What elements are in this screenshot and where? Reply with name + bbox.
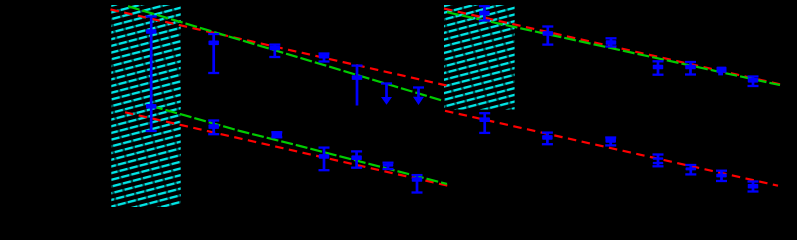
data point U1: [479, 5, 490, 22]
data point B7: [412, 174, 423, 194]
data point R1: [479, 112, 490, 134]
green dashed fit, upper-right segment: [447, 12, 780, 85]
hatched band 1 (left epoch window): [111, 5, 180, 207]
data point B5: [351, 150, 362, 169]
green dashed fit, lower-left segment: [151, 106, 447, 184]
data point R7: [748, 180, 759, 192]
data point R5: [685, 164, 696, 176]
data point B4: [319, 146, 330, 171]
upper-limit arrow T6: [381, 82, 392, 104]
data point B6: [383, 162, 394, 171]
data point R6: [716, 170, 727, 183]
data point B3: [271, 131, 282, 138]
data point R3: [605, 136, 616, 146]
data point U5: [685, 61, 696, 76]
red dashed fit, upper-right segment: [444, 9, 780, 85]
upper-limit arrow T7: [413, 86, 424, 105]
red dashed fit, upper-left segment: [111, 10, 448, 86]
data point T5: [352, 64, 363, 105]
data point T4: [319, 52, 330, 62]
red dashed fit, lower-left segment: [125, 112, 450, 186]
data point U6: [717, 67, 727, 76]
red dashed fit, lower-right segment: [445, 111, 778, 186]
data point U7: [748, 75, 759, 87]
data point T2: [208, 33, 219, 74]
data point R2: [542, 131, 553, 145]
data point T3: [269, 43, 280, 58]
data point U4: [653, 60, 664, 76]
hatched band 2 (right epoch window): [444, 5, 515, 110]
data point T1/B1 (shared shaft, two markers): [146, 15, 157, 132]
data point U3: [606, 37, 617, 47]
data point R4 (two stacked points): [653, 153, 664, 167]
data point B2: [208, 119, 219, 135]
green dashed fit, upper-left segment: [128, 6, 441, 100]
data point U2: [542, 25, 553, 45]
